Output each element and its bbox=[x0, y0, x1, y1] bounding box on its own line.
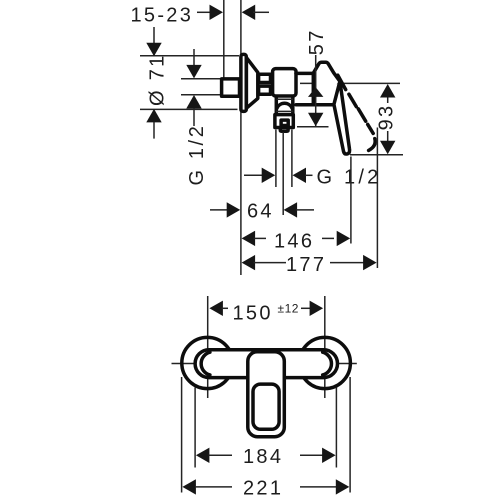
handle hood (solid position) bbox=[313, 62, 340, 104]
dim 150 ext line right / circle centreline right bbox=[324, 296, 326, 398]
extension line supply stub top bbox=[181, 78, 221, 80]
connector port lower bbox=[259, 86, 271, 94]
dim 150 ext line left / circle centreline left bbox=[207, 296, 209, 398]
dashed hook tip bbox=[369, 139, 376, 151]
wall line B (finished wall, long extension line) bbox=[240, 0, 242, 275]
escutcheon circle right bbox=[299, 337, 350, 388]
bar inner end arc left bbox=[201, 352, 210, 375]
mixer body block bbox=[273, 69, 296, 96]
dim stub G1/2 line + arrows bbox=[193, 49, 195, 66]
dim 146 bbox=[242, 231, 256, 246]
dim 184 bbox=[196, 448, 210, 463]
handle outer (front) bbox=[248, 352, 284, 437]
ext line 184 right bbox=[335, 388, 337, 468]
outlet nipple bbox=[280, 128, 288, 131]
dim G1/2 outlet arrows bbox=[244, 174, 263, 176]
supply stub square bbox=[222, 79, 240, 96]
centre reference line (supply axis) bbox=[300, 82, 400, 84]
svg-text:±12: ±12 bbox=[278, 302, 299, 316]
dim 57 arrows bbox=[308, 87, 323, 97]
dash 2 bbox=[349, 94, 356, 106]
svg-text:221: 221 bbox=[243, 478, 283, 500]
outlet centre extension line bbox=[282, 132, 284, 215]
handle inner loop (front) bbox=[253, 384, 279, 429]
extension line dashed handle outer bbox=[376, 128, 378, 269]
dim 64 bbox=[210, 209, 228, 211]
svg-text:146: 146 bbox=[274, 231, 314, 253]
neck lower thin line bbox=[276, 110, 293, 112]
handle lever (solid position) bbox=[334, 81, 350, 154]
ext line 221 left bbox=[181, 377, 183, 493]
dim 57 line bbox=[315, 55, 317, 126]
svg-text:Ø 71: Ø 71 bbox=[146, 53, 168, 106]
connector port upper bbox=[259, 74, 271, 82]
neck top thin line bbox=[277, 98, 294, 100]
dim 221 bbox=[182, 479, 196, 494]
cartridge boss top edge bbox=[296, 72, 313, 76]
handle skirt bottom edge bbox=[296, 103, 334, 107]
handle lever dashed (open position) dash 1 bbox=[338, 75, 346, 89]
neck below body bbox=[276, 98, 293, 115]
svg-text:57: 57 bbox=[306, 28, 328, 55]
ext line 184 left bbox=[194, 388, 196, 468]
escutcheon circle left bbox=[182, 337, 233, 388]
ext line 221 right bbox=[349, 377, 351, 493]
neck dome arc bbox=[277, 103, 292, 108]
svg-text:15-23: 15-23 bbox=[131, 4, 194, 26]
dash 4 bbox=[368, 124, 374, 133]
outlet extension line right bbox=[291, 130, 293, 188]
outlet bottom reference line bbox=[297, 126, 329, 128]
svg-text:G 1/2: G 1/2 bbox=[317, 167, 382, 189]
svg-text:150: 150 bbox=[233, 302, 273, 324]
bar inner end arc right bbox=[323, 352, 332, 375]
dim 93 line + arrows bbox=[387, 96, 389, 103]
svg-text:184: 184 bbox=[243, 446, 283, 468]
body bar (stadium) bbox=[195, 350, 337, 378]
dim 93 bottom reference line bbox=[350, 154, 403, 156]
escutcheon wall plate bbox=[241, 54, 246, 111]
outlet extension line left bbox=[275, 130, 277, 188]
extension line escutcheon top bbox=[140, 55, 239, 57]
extension line solid handle tip bbox=[350, 157, 352, 244]
dim O71 line + arrows bbox=[153, 27, 155, 55]
extension line supply stub bottom bbox=[181, 94, 221, 96]
escutcheon cone bbox=[246, 58, 257, 109]
dash 3 bbox=[358, 109, 365, 121]
svg-text:177: 177 bbox=[286, 254, 326, 276]
svg-text:G 1/2: G 1/2 bbox=[186, 124, 208, 186]
dim 150 +-12 bbox=[209, 301, 223, 316]
dim 177 bbox=[242, 255, 256, 270]
svg-text:64: 64 bbox=[247, 201, 274, 223]
outlet flange bbox=[275, 115, 293, 128]
outlet inner square bbox=[281, 120, 288, 125]
dim 15-23 arrows bbox=[197, 11, 210, 13]
horizontal centreline through circles bbox=[172, 363, 357, 365]
wall line A (unfinished wall) bbox=[223, 0, 225, 79]
svg-text:93: 93 bbox=[376, 104, 398, 131]
extension line escutcheon bottom bbox=[140, 108, 238, 110]
